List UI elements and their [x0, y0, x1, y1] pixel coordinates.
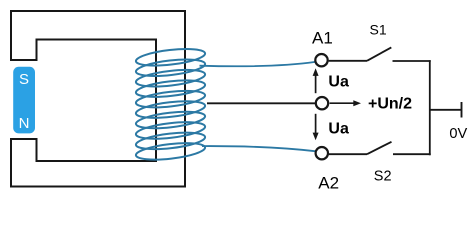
wire A2 to S2: [329, 153, 367, 155]
wire S2 to bus: [393, 153, 431, 155]
core yoke: [11, 11, 185, 187]
switch S1: [367, 47, 391, 60]
wire S1 to bus: [393, 60, 431, 62]
svg-text:+Un/2: +Un/2: [368, 96, 412, 113]
svg-text:Ua: Ua: [328, 74, 349, 91]
terminal mid: [316, 97, 328, 109]
svg-text:S: S: [19, 71, 29, 88]
svg-text:N: N: [19, 115, 30, 132]
magnet: [13, 67, 35, 134]
coil L1: [135, 46, 206, 162]
svg-text:S1: S1: [370, 22, 387, 38]
terminal 0V bar: [461, 102, 463, 118]
svg-text:Ua: Ua: [328, 120, 349, 137]
wire A1 to S1: [329, 60, 367, 62]
wire coil top to A1: [200, 62, 316, 66]
svg-text:A1: A1: [312, 29, 333, 48]
bus wire right vertical: [429, 60, 431, 155]
arrow Ua up: [313, 68, 319, 93]
svg-text:S2: S2: [374, 169, 392, 185]
switch S2: [367, 142, 392, 154]
terminal A1: [315, 54, 327, 66]
arrow Ua down: [313, 114, 319, 141]
arrow +Un/2: [330, 100, 361, 106]
svg-text:A2: A2: [318, 173, 339, 192]
wire coil bottom to A2: [202, 146, 316, 151]
wire center tap: [207, 102, 316, 104]
wire bus to 0V terminal: [430, 109, 462, 111]
svg-text:0V: 0V: [449, 126, 467, 142]
terminal A2: [316, 147, 328, 159]
